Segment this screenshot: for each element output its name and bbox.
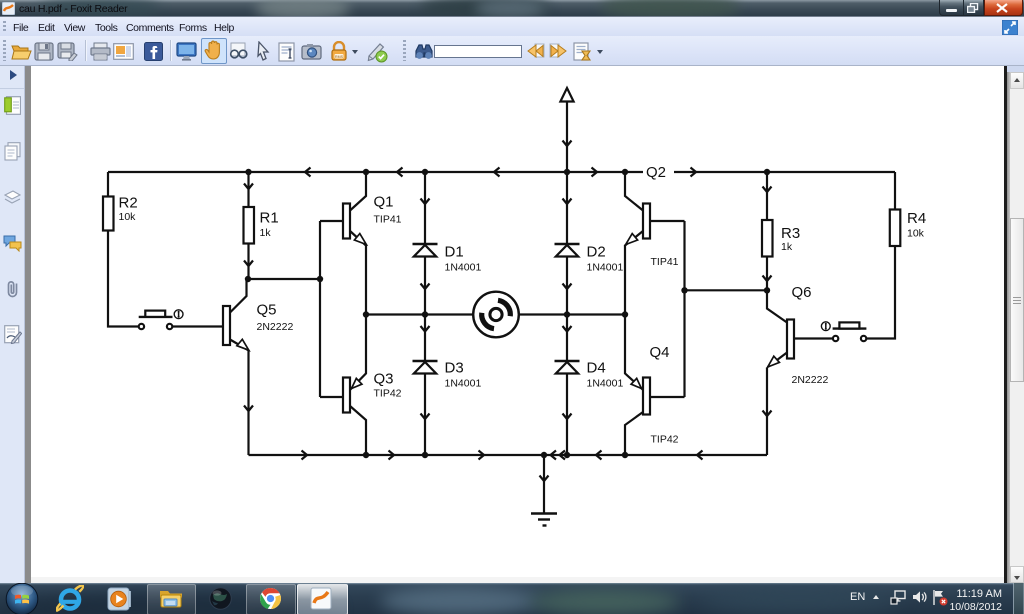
- diode D2 1N4001: [555, 243, 580, 245]
- doc with hourglass: [573, 42, 593, 62]
- arrow down below D1: [421, 284, 430, 290]
- blue expand icon at right of menu bar: [1002, 20, 1018, 35]
- transistor Q5 2N2222: [223, 306, 230, 345]
- email/share: [113, 43, 134, 60]
- chrome taskbar button: [246, 584, 296, 614]
- signature panel icon: [4, 325, 22, 344]
- hand tool (active): [201, 38, 227, 64]
- svg-text:D4: D4: [587, 360, 606, 377]
- svg-text:2N2222: 2N2222: [792, 374, 829, 386]
- svg-text:1N4001: 1N4001: [445, 262, 482, 274]
- open folder: [11, 42, 32, 61]
- power VCC symbol: [560, 88, 573, 102]
- save as: [57, 42, 78, 61]
- svg-text:Q2: Q2: [646, 164, 666, 181]
- foxit icon: [309, 587, 333, 610]
- wire button to Q5 base: [173, 325, 223, 327]
- explorer taskbar button: [147, 584, 196, 614]
- speaker icon: [912, 590, 927, 604]
- pushbutton SW2 (right): [821, 322, 866, 341]
- wire button to R4 column: [867, 246, 895, 339]
- svg-text:Q5: Q5: [257, 302, 277, 319]
- resistor R2: [103, 197, 114, 231]
- WMP icon: [107, 587, 132, 611]
- svg-text:Q4: Q4: [650, 344, 670, 361]
- wire base rail right: [685, 289, 768, 291]
- svg-text:10k: 10k: [907, 228, 925, 240]
- show desktop: [1013, 583, 1014, 614]
- comments panel icon: [3, 234, 22, 252]
- arrow down below R1: [244, 261, 253, 267]
- wire top rail: [108, 171, 895, 173]
- arrow down below D3: [421, 414, 430, 420]
- wire Q4 base: [650, 396, 685, 398]
- printer: [90, 42, 111, 61]
- svg-text:1N4001: 1N4001: [587, 262, 624, 274]
- start orb: [5, 582, 39, 614]
- resistor R1: [247, 172, 249, 207]
- svg-text:Q6: Q6: [792, 284, 812, 301]
- diode D4 column: [566, 315, 568, 456]
- wire motor rail: [366, 313, 625, 315]
- resistor R3: [764, 169, 770, 175]
- attachment panel icon: [5, 279, 20, 299]
- scrollbar thumb: [1010, 218, 1024, 382]
- node R1 top: [245, 169, 251, 175]
- svg-text:TIP41: TIP41: [651, 256, 679, 268]
- svg-text:2N2222: 2N2222: [257, 321, 294, 333]
- wire Q2 base: [650, 220, 685, 222]
- svg-text:TIP41: TIP41: [374, 214, 402, 226]
- wire base rail left: [248, 278, 320, 280]
- svg-text:RMS: RMS: [335, 55, 344, 59]
- diode D4 1N4001: [555, 360, 580, 362]
- find prev: [527, 43, 545, 60]
- svg-text:10k: 10k: [119, 211, 137, 223]
- sign pen: [366, 41, 388, 63]
- transistor Q6 2N2222: [767, 290, 787, 322]
- action center flag: [932, 589, 948, 606]
- ground: [541, 452, 547, 458]
- svg-text:1N4001: 1N4001: [445, 378, 482, 390]
- svg-text:1N4001: 1N4001: [587, 378, 624, 390]
- save floppy: [34, 42, 54, 61]
- svg-text:Q3: Q3: [374, 371, 394, 388]
- glasses/reading: [228, 42, 249, 61]
- svg-text:R2: R2: [119, 195, 138, 212]
- cursor arrow: [255, 41, 271, 62]
- search box: [434, 45, 522, 58]
- app icon: [2, 2, 15, 15]
- layers panel icon: [3, 190, 22, 205]
- svg-text:R3: R3: [781, 225, 800, 242]
- svg-text:D3: D3: [445, 360, 464, 377]
- node R1/Q5 collector: [245, 276, 251, 282]
- scrollbar down button: [1010, 566, 1024, 583]
- RMS lock: [329, 41, 349, 62]
- tray: [850, 591, 865, 603]
- explorer folder icon: [159, 588, 183, 609]
- pages panel icon: [4, 142, 21, 161]
- svg-text:D2: D2: [587, 244, 606, 261]
- diode D1 1N4001: [413, 243, 438, 245]
- wire Q3 base: [320, 396, 343, 398]
- resistor R4: [890, 210, 901, 247]
- svg-text:R4: R4: [907, 210, 926, 227]
- foxit taskbar button (active): [297, 584, 348, 614]
- window buttons: [939, 0, 1023, 16]
- wire Q6 base to button: [794, 337, 832, 339]
- find next: [549, 43, 567, 60]
- arrow down: [244, 406, 253, 412]
- svg-text:1k: 1k: [781, 241, 793, 253]
- arrows on top rail: [305, 168, 311, 177]
- svg-text:TIP42: TIP42: [374, 388, 402, 400]
- network icon: [890, 590, 906, 605]
- transistor Q3 TIP42: [343, 378, 350, 413]
- wire Q1 base: [320, 220, 343, 222]
- bookmark panel icon: [4, 96, 21, 115]
- wire Q2/Q4 base column: [683, 221, 685, 397]
- monitor: [176, 42, 197, 61]
- arrow down above D3: [421, 326, 430, 332]
- svg-text:1k: 1k: [260, 227, 272, 239]
- svg-text:Q1: Q1: [374, 194, 394, 211]
- motor M1: [473, 292, 519, 338]
- svg-text:TIP42: TIP42: [651, 434, 679, 446]
- diode D1 column: [424, 172, 426, 315]
- transistor Q2 TIP41: [622, 169, 628, 175]
- binoculars: [414, 42, 434, 61]
- arrow down above D1: [421, 199, 430, 205]
- wire left branch: rail to R2 to button: [108, 172, 138, 327]
- typewriter doc: [278, 42, 297, 62]
- arrow down on supply wire: [563, 141, 572, 147]
- svg-text:R1: R1: [260, 210, 279, 227]
- wire Q5 emitter down to bottom rail: [247, 351, 249, 456]
- transistor Q4 TIP42: [625, 315, 643, 390]
- pushbutton SW1 (left): [139, 310, 183, 329]
- diode D3 column: [424, 315, 426, 456]
- arrows on bottom rail: [302, 451, 308, 460]
- wire bottom rail: [249, 454, 768, 456]
- svg-text:D1: D1: [445, 244, 464, 261]
- globe icon: [209, 587, 232, 610]
- wire Q1/Q3 base column: [319, 221, 321, 397]
- camera: [301, 43, 322, 60]
- diode D3 1N4001: [413, 360, 438, 362]
- transistor Q1 TIP41: [343, 204, 350, 239]
- chrome icon: [259, 587, 282, 610]
- arrow down above R1: [244, 184, 253, 190]
- scrollbar top band + up button: [1007, 66, 1024, 72]
- diode D2 column: [566, 172, 568, 315]
- IE icon: [56, 585, 84, 613]
- node Q1/Q3 base column: [317, 276, 323, 282]
- facebook: [144, 42, 163, 61]
